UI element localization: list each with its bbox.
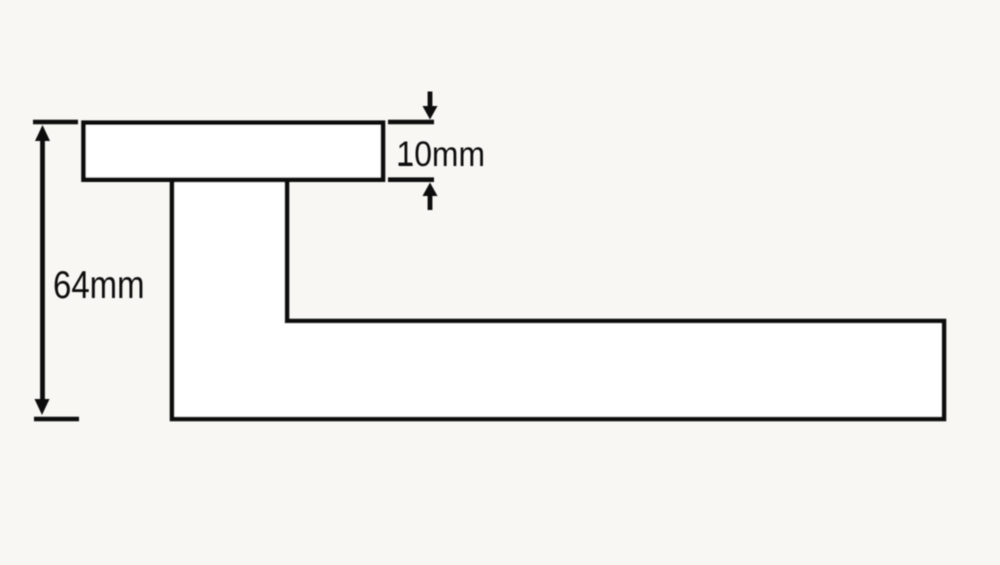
svg-text:10mm: 10mm — [397, 135, 486, 174]
svg-text:64mm: 64mm — [53, 264, 145, 307]
